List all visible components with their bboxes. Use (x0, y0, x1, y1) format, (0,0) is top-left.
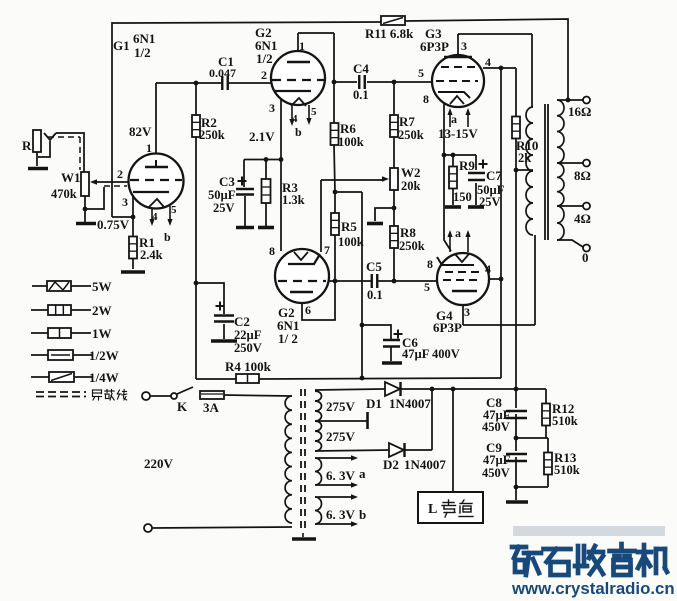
svg-text:6N1: 6N1 (133, 31, 155, 46)
svg-text:3: 3 (464, 305, 470, 319)
svg-text:0.1: 0.1 (353, 88, 369, 102)
svg-text:6P3P: 6P3P (433, 320, 462, 335)
svg-text:0.047: 0.047 (209, 66, 236, 80)
svg-text:4: 4 (485, 55, 491, 69)
svg-text:4: 4 (485, 262, 491, 276)
svg-text:5W: 5W (92, 279, 112, 294)
svg-text:150: 150 (453, 190, 472, 204)
svg-text:R8: R8 (400, 225, 416, 240)
svg-text:1W: 1W (92, 326, 112, 341)
svg-text:5: 5 (171, 204, 177, 216)
svg-text:16Ω: 16Ω (568, 104, 591, 119)
svg-text:7: 7 (324, 243, 330, 257)
svg-text:510k: 510k (552, 414, 578, 428)
svg-text:5: 5 (424, 280, 430, 294)
svg-text:G1: G1 (113, 38, 130, 53)
svg-text:25V: 25V (479, 195, 501, 209)
svg-text:1N4007: 1N4007 (389, 396, 431, 411)
svg-text:50µF: 50µF (208, 188, 236, 202)
svg-text:47µF 400V: 47µF 400V (402, 347, 460, 361)
svg-text:R4 100k: R4 100k (225, 359, 272, 374)
svg-text:5: 5 (418, 66, 424, 80)
svg-text:a: a (359, 466, 366, 481)
svg-text:b: b (295, 125, 302, 139)
svg-text:C4: C4 (353, 61, 369, 76)
svg-text:3: 3 (122, 195, 128, 209)
svg-text:4: 4 (152, 211, 158, 223)
svg-text:R6: R6 (340, 121, 356, 136)
svg-text:25V: 25V (213, 201, 235, 215)
svg-text:250k: 250k (398, 128, 424, 142)
svg-text:0.75V: 0.75V (97, 217, 130, 232)
svg-text:8: 8 (269, 244, 275, 258)
svg-text:R9: R9 (459, 158, 475, 173)
svg-text:510k: 510k (554, 463, 580, 477)
svg-text:D2: D2 (383, 457, 399, 472)
svg-text:R7: R7 (399, 114, 415, 129)
svg-text:8: 8 (427, 257, 433, 271)
svg-text:250k: 250k (399, 239, 425, 253)
svg-text:1/2W: 1/2W (89, 348, 119, 363)
svg-text:275V: 275V (326, 429, 356, 444)
svg-text:2: 2 (117, 167, 123, 181)
svg-text:450V: 450V (482, 420, 510, 434)
svg-text:470k: 470k (51, 187, 77, 201)
svg-text:C7: C7 (486, 168, 502, 183)
svg-text:1.3k: 1.3k (282, 193, 305, 207)
svg-text:L: L (428, 502, 437, 517)
svg-text:6. 3V: 6. 3V (326, 468, 356, 483)
svg-text:0: 0 (582, 250, 589, 265)
svg-text:b: b (359, 507, 366, 522)
svg-text:W2: W2 (401, 165, 421, 180)
svg-text:8Ω: 8Ω (574, 168, 591, 183)
svg-text:2W: 2W (92, 303, 112, 318)
svg-text:1: 1 (299, 39, 305, 53)
svg-text:D1: D1 (366, 396, 382, 411)
svg-text:2.1V: 2.1V (249, 129, 275, 144)
svg-text:0.1: 0.1 (367, 288, 383, 302)
svg-text:1: 1 (146, 141, 152, 155)
svg-text:6: 6 (305, 303, 311, 317)
svg-text:450V: 450V (482, 466, 510, 480)
svg-text:K: K (177, 399, 188, 414)
svg-text:3: 3 (269, 101, 275, 115)
svg-text:R11 6.8k: R11 6.8k (365, 26, 414, 41)
svg-text:4: 4 (292, 113, 298, 125)
svg-text:C5: C5 (366, 259, 382, 274)
svg-text:www.crystalradio.cn: www.crystalradio.cn (511, 579, 675, 598)
svg-text:1/ 2: 1/ 2 (278, 331, 298, 346)
svg-text:R: R (22, 138, 32, 153)
svg-text:W1: W1 (61, 170, 81, 185)
svg-text:2: 2 (261, 68, 267, 82)
svg-text:3: 3 (461, 39, 467, 53)
svg-text:8: 8 (423, 92, 429, 106)
svg-text:82V: 82V (129, 124, 152, 139)
svg-text:20k: 20k (401, 179, 421, 193)
svg-text:1/2: 1/2 (134, 45, 151, 60)
svg-text:6. 3V: 6. 3V (326, 507, 356, 522)
svg-text:1/4W: 1/4W (89, 370, 119, 385)
svg-text:5: 5 (311, 106, 317, 118)
svg-text:b: b (164, 230, 171, 244)
svg-text:275V: 275V (326, 399, 356, 414)
svg-text:3A: 3A (203, 400, 220, 415)
svg-text:2.4k: 2.4k (140, 248, 163, 262)
svg-text:100k: 100k (338, 235, 364, 249)
svg-text:C3: C3 (219, 174, 235, 189)
svg-text:22µF: 22µF (234, 328, 262, 342)
svg-text:4Ω: 4Ω (574, 211, 591, 226)
svg-text:a: a (451, 112, 457, 126)
svg-text:6P3P: 6P3P (420, 39, 449, 54)
svg-text:R5: R5 (341, 219, 357, 234)
svg-text:C2: C2 (234, 314, 250, 329)
svg-text:1/2: 1/2 (256, 51, 273, 66)
svg-text:250k: 250k (199, 128, 225, 142)
svg-text:1N4007: 1N4007 (404, 457, 446, 472)
svg-text:250V: 250V (234, 341, 262, 355)
svg-text:13-15V: 13-15V (438, 126, 478, 141)
svg-text:47µF: 47µF (483, 453, 511, 467)
svg-text:220V: 220V (144, 456, 174, 471)
svg-text:a: a (455, 226, 461, 240)
svg-text:100k: 100k (338, 135, 364, 149)
